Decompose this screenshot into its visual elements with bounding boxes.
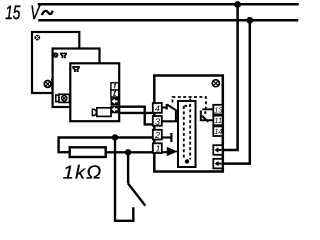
svg-text:1kΩ: 1kΩ [63, 161, 103, 182]
svg-text:14: 14 [214, 127, 222, 136]
svg-text:13: 13 [214, 105, 223, 114]
svg-text:11: 11 [214, 116, 222, 125]
svg-text:1: 1 [156, 144, 161, 154]
svg-text:V: V [30, 2, 41, 24]
svg-text:15: 15 [5, 2, 20, 24]
svg-text:2: 2 [154, 130, 160, 140]
svg-text:3: 3 [155, 116, 160, 126]
svg-text:4: 4 [155, 103, 160, 113]
